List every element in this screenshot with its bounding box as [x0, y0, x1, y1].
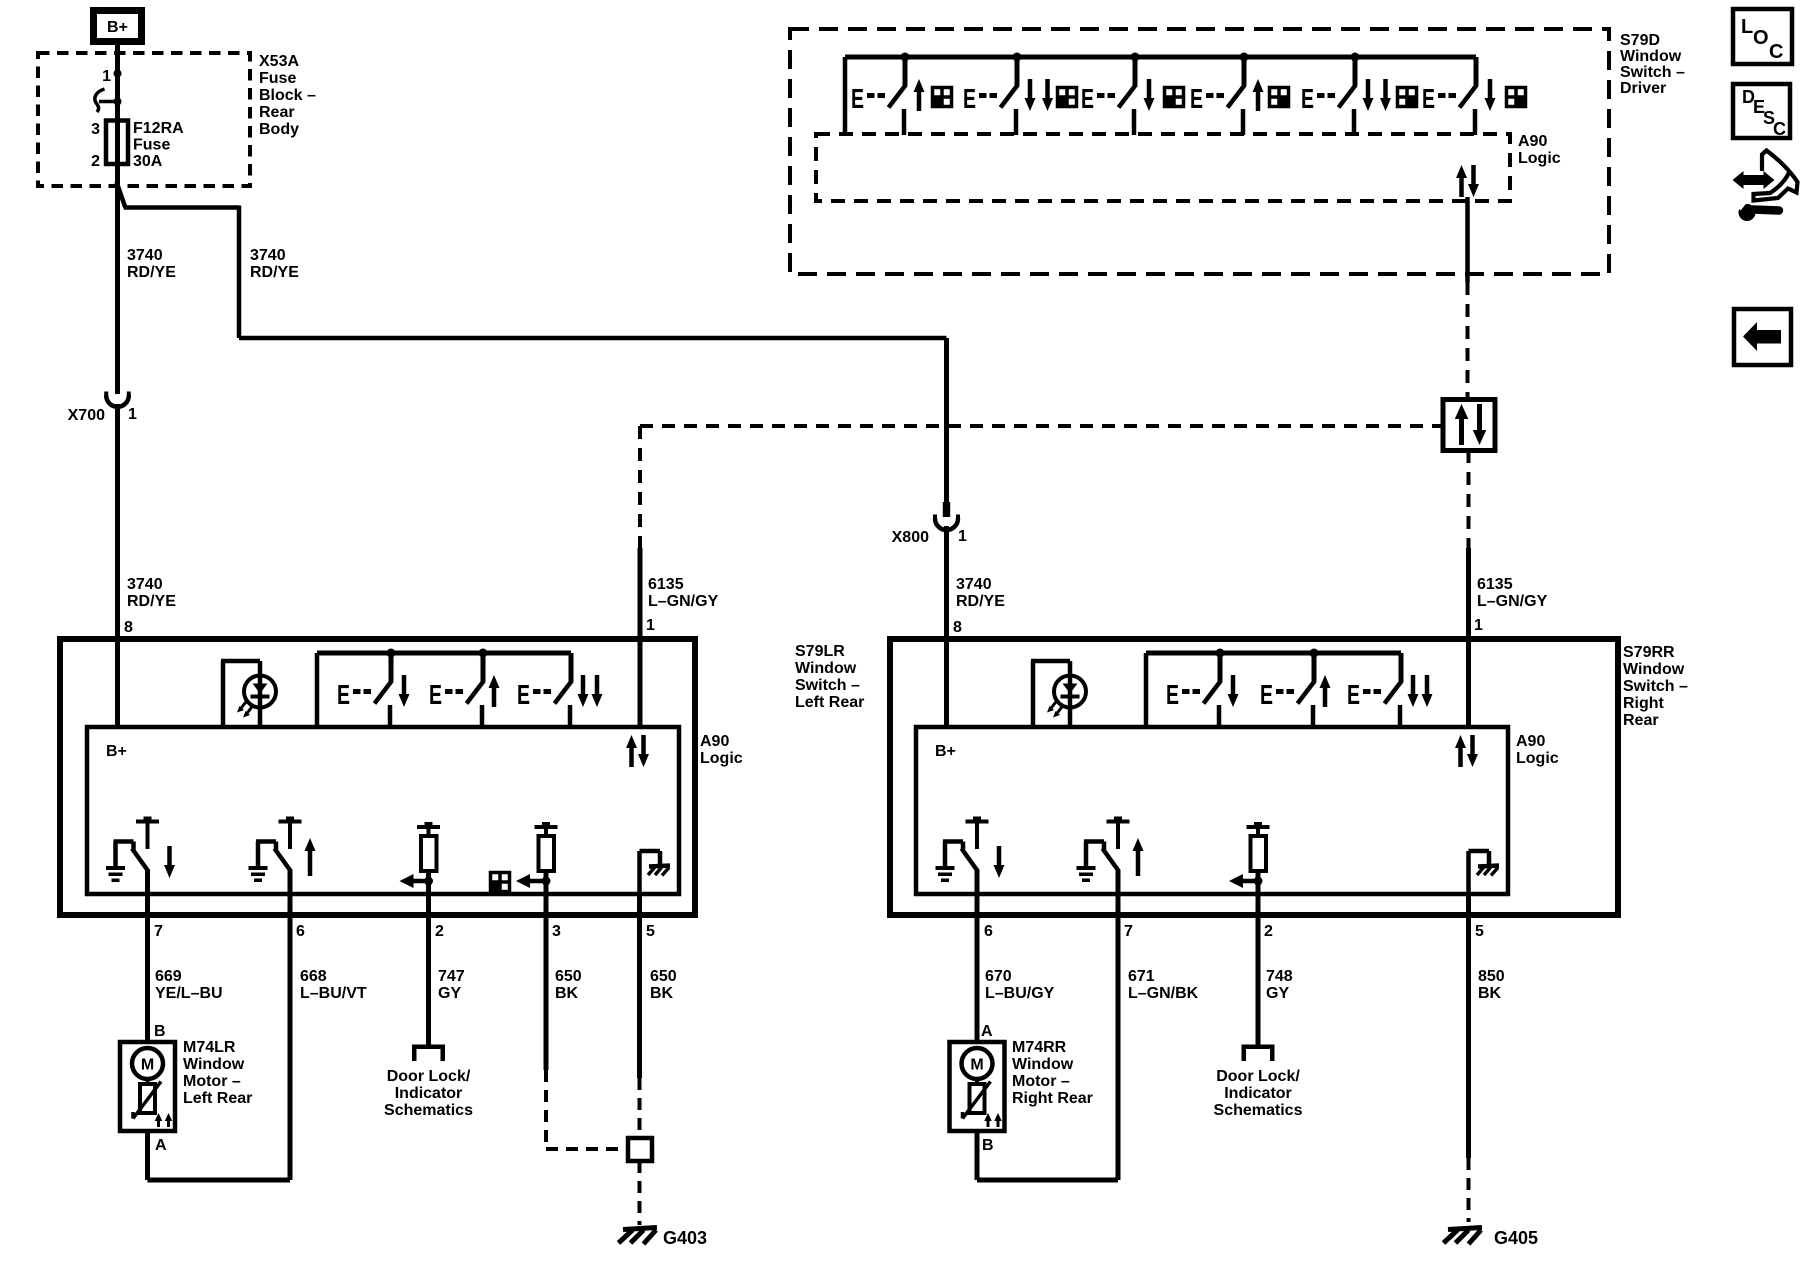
S79RR resistor output (pin 2)	[1229, 822, 1270, 896]
svg-text:670: 670	[985, 968, 1012, 985]
S79LR resistor output (pin 2)	[400, 822, 441, 896]
wire label 650 BK (pin 5)	[650, 968, 677, 1002]
S79RR switch 2 (E-switch)	[1260, 649, 1331, 728]
svg-text:Driver: Driver	[1620, 80, 1666, 97]
svg-text:747: 747	[438, 968, 465, 985]
svg-text:L–BU/GY: L–BU/GY	[985, 985, 1055, 1002]
S79LR switch bus	[317, 653, 571, 727]
svg-text:3740: 3740	[250, 247, 286, 264]
connector up-down box	[1443, 400, 1495, 451]
S79RR label	[1623, 644, 1688, 729]
svg-text:X700: X700	[68, 407, 105, 424]
svg-text:M: M	[970, 1057, 983, 1074]
svg-text:2: 2	[91, 153, 100, 170]
svg-text:BK: BK	[650, 985, 674, 1002]
fuse block label X53A	[259, 53, 316, 138]
svg-text:E: E	[1190, 83, 1203, 114]
S79LR switch 2 (E-switch)	[429, 649, 500, 728]
svg-text:YE/L–BU: YE/L–BU	[155, 985, 223, 1002]
S79RR up-switch to ground (pin 7)	[1077, 817, 1144, 897]
svg-text:748: 748	[1266, 968, 1293, 985]
fuse F12RA 30A	[91, 120, 184, 170]
svg-text:E: E	[1260, 679, 1273, 710]
driver bus wire	[845, 57, 1476, 135]
wire main horizontal to X800	[239, 336, 947, 341]
svg-text:Rear: Rear	[1623, 712, 1659, 729]
wire pin 3 solid	[544, 871, 549, 1070]
svg-text:E: E	[1081, 83, 1094, 114]
svg-text:Fuse: Fuse	[259, 70, 296, 87]
M74RR label	[1012, 1039, 1093, 1107]
wire dashed driver to connector	[1466, 282, 1470, 399]
S79RR internal chassis ground (pin 5)	[1469, 851, 1500, 896]
wire dashed crossover left down	[638, 426, 642, 548]
window icon 5	[1397, 87, 1417, 107]
svg-text:GY: GY	[1266, 985, 1289, 1002]
svg-text:3740: 3740	[956, 576, 992, 593]
svg-text:671: 671	[1128, 968, 1155, 985]
ground G403	[619, 1228, 708, 1249]
svg-text:L: L	[1741, 16, 1753, 38]
svg-text:3: 3	[552, 923, 561, 940]
svg-text:Logic: Logic	[1518, 150, 1561, 167]
door lock text right	[1214, 1068, 1303, 1119]
driver A90 label	[1518, 133, 1561, 167]
svg-text:Indicator: Indicator	[395, 1085, 463, 1102]
wire pin 2 to door lock schematic	[426, 871, 431, 1047]
wire label 747 GY	[438, 968, 465, 1002]
svg-text:BK: BK	[555, 985, 579, 1002]
wire pin 5 right solid	[1466, 894, 1471, 1158]
svg-text:E: E	[337, 679, 350, 710]
window switch S79LR outer box	[60, 639, 695, 915]
svg-text:Right: Right	[1623, 695, 1665, 712]
svg-text:5: 5	[646, 923, 655, 940]
svg-text:3: 3	[91, 121, 100, 138]
svg-text:Window: Window	[1620, 48, 1682, 65]
svg-text:7: 7	[154, 923, 163, 940]
connector X800	[892, 502, 967, 546]
window icon 4	[1269, 87, 1289, 107]
wire dashed crossover horizontal	[640, 424, 1443, 428]
wire pin 5 dashed	[638, 1078, 642, 1138]
wire splice horizontal upper	[124, 205, 239, 210]
svg-text:O: O	[1753, 27, 1769, 49]
wire down to main horizontal	[237, 206, 242, 339]
door lock text left	[384, 1068, 473, 1119]
S79D label	[1620, 32, 1685, 97]
wire X800 to S79RR pin 8	[944, 526, 949, 727]
svg-text:Block –: Block –	[259, 87, 316, 104]
svg-text:668: 668	[300, 968, 327, 985]
svg-text:2: 2	[435, 923, 444, 940]
pin labels S79RR	[984, 923, 1484, 940]
window switch S79RR outer box	[890, 639, 1618, 915]
svg-text:S79LR: S79LR	[795, 643, 845, 660]
svg-text:G403: G403	[663, 1228, 707, 1248]
wire pin 6 to motor	[975, 871, 980, 1042]
wire pin 5 right dashed	[1467, 1158, 1471, 1222]
svg-text:Left Rear: Left Rear	[795, 694, 864, 711]
svg-text:30A: 30A	[133, 153, 163, 170]
driver switch 4 (E-switch)	[1190, 53, 1264, 136]
svg-text:E: E	[429, 679, 442, 710]
svg-text:S79RR: S79RR	[1623, 644, 1675, 661]
svg-text:B+: B+	[935, 743, 956, 760]
svg-text:A90: A90	[700, 733, 729, 750]
wire motor loop to pin 6	[148, 871, 291, 1180]
svg-text:Body: Body	[259, 121, 299, 138]
S79LR up-switch to ground (pin 6)	[249, 817, 316, 897]
svg-text:E: E	[963, 83, 976, 114]
wire B+ down to X700	[115, 44, 120, 394]
S79LR A90 up-down arrows	[626, 735, 649, 767]
svg-text:Schematics: Schematics	[384, 1102, 473, 1119]
svg-text:Logic: Logic	[1516, 750, 1559, 767]
S79RR A90 label	[1516, 733, 1559, 767]
svg-text:650: 650	[650, 968, 677, 985]
driver switch 1 (E-switch)	[851, 53, 925, 136]
wire label 669 YE/L-BU	[155, 968, 223, 1002]
svg-text:L–BU/VT: L–BU/VT	[300, 985, 367, 1002]
wire label 3740 RD/YE at pin 8	[127, 576, 176, 610]
svg-text:GY: GY	[438, 985, 461, 1002]
driver A90 up-down arrows	[1456, 165, 1479, 197]
S79LR A90 label	[700, 733, 743, 767]
svg-text:A: A	[981, 1023, 993, 1040]
svg-text:C: C	[1773, 119, 1786, 139]
svg-text:M74RR: M74RR	[1012, 1039, 1067, 1056]
window icon 2	[1057, 87, 1077, 107]
door lock bracket left	[412, 1045, 445, 1050]
wire dashed connector down	[1467, 450, 1471, 548]
svg-text:669: 669	[155, 968, 182, 985]
svg-text:Window: Window	[1623, 661, 1685, 678]
driver switch 5 (E-switch)	[1301, 53, 1391, 136]
wire label 670 L-BU/GY	[985, 968, 1055, 1002]
S79LR switch 1 (E-switch)	[337, 649, 410, 728]
svg-text:Fuse: Fuse	[133, 137, 170, 154]
wire label 668 L-BU/VT	[300, 968, 367, 1002]
svg-text:Window: Window	[795, 660, 857, 677]
svg-text:E: E	[851, 83, 864, 114]
svg-text:Switch –: Switch –	[1620, 64, 1685, 81]
power symbol B+	[94, 11, 142, 42]
svg-text:E: E	[1301, 83, 1314, 114]
S79LR label	[795, 643, 864, 711]
svg-text:5: 5	[1475, 923, 1484, 940]
svg-text:1: 1	[646, 617, 655, 634]
svg-text:E: E	[1347, 679, 1360, 710]
svg-text:6: 6	[984, 923, 993, 940]
wire label 748 GY	[1266, 968, 1293, 1002]
svg-text:X53A: X53A	[259, 53, 299, 70]
fuse block X53A dashed box	[38, 53, 250, 186]
wire to S79LR pin 1	[638, 548, 643, 727]
svg-text:B+: B+	[107, 19, 128, 36]
S79LR internal chassis ground (pin 5)	[640, 851, 671, 896]
wire label 3740 RD/YE right	[250, 247, 299, 281]
icon LOC box	[1733, 9, 1792, 64]
svg-text:C: C	[1769, 41, 1783, 63]
window icon 1	[932, 87, 952, 107]
svg-text:M: M	[141, 1057, 154, 1074]
wire label 3740 RD/YE at X800	[956, 576, 1005, 610]
wire dashed splice to ground	[638, 1161, 642, 1225]
window icon 6	[1506, 87, 1526, 107]
svg-text:B: B	[154, 1023, 166, 1040]
window icon at S79LR pin 3	[490, 872, 510, 892]
wire label 850 BK	[1478, 968, 1505, 1002]
S79RR switch 1 (E-switch)	[1166, 649, 1239, 728]
svg-text:E: E	[517, 679, 530, 710]
wire dashed to splice box	[546, 1147, 628, 1151]
svg-text:2: 2	[1264, 923, 1273, 940]
svg-text:6: 6	[296, 923, 305, 940]
svg-text:1: 1	[128, 406, 137, 423]
svg-text:B+: B+	[106, 743, 127, 760]
connector X700	[68, 392, 137, 425]
svg-text:F12RA: F12RA	[133, 120, 184, 137]
window motor M74LR	[120, 1042, 175, 1131]
svg-text:RD/YE: RD/YE	[127, 593, 176, 610]
wire pin 7 to motor	[145, 871, 150, 1042]
svg-text:3740: 3740	[127, 247, 163, 264]
wire driver A90 output	[1465, 197, 1470, 282]
icon DESC box	[1733, 84, 1790, 139]
wire pin 3 dashed down	[544, 1070, 548, 1149]
wire label 650 BK (pin 3)	[555, 968, 582, 1002]
svg-text:6135: 6135	[1477, 576, 1513, 593]
svg-text:8: 8	[953, 619, 962, 636]
S79RR down-switch to ground (pin 6)	[936, 817, 1005, 897]
svg-text:6135: 6135	[648, 576, 684, 593]
svg-text:3740: 3740	[127, 576, 163, 593]
svg-text:Window: Window	[183, 1056, 245, 1073]
svg-text:Door Lock/: Door Lock/	[1216, 1068, 1300, 1085]
svg-text:Schematics: Schematics	[1214, 1102, 1303, 1119]
node pin 1 of fuse block	[102, 68, 121, 85]
svg-text:B: B	[982, 1137, 994, 1154]
svg-text:X800: X800	[892, 529, 929, 546]
svg-text:Window: Window	[1012, 1056, 1074, 1073]
S79RR switch 3 (E-switch)	[1347, 653, 1433, 727]
svg-text:A: A	[155, 1137, 167, 1154]
svg-text:E: E	[1422, 83, 1435, 114]
driver A90 Logic dashed box	[816, 134, 1510, 201]
svg-text:1: 1	[958, 528, 967, 545]
window switch driver S79D dashed box	[790, 29, 1609, 274]
svg-text:Right Rear: Right Rear	[1012, 1090, 1093, 1107]
ground G405	[1444, 1228, 1539, 1249]
wire pin 2 right to door lock	[1256, 871, 1261, 1047]
svg-text:RD/YE: RD/YE	[250, 264, 299, 281]
wire label 6135 L-GN/GY right	[1477, 576, 1548, 610]
window icon 3	[1164, 87, 1184, 107]
svg-text:Left Rear: Left Rear	[183, 1090, 252, 1107]
driver switch 6 (E-switch)	[1422, 57, 1496, 135]
S79LR A90 logic inner box	[87, 727, 679, 894]
wire to S79RR pin 1	[1466, 548, 1471, 727]
svg-text:Indicator: Indicator	[1224, 1085, 1292, 1102]
S79LR resistor output with window icon (pin 3)	[516, 822, 558, 896]
S79LR switch 3 (E-switch)	[517, 653, 603, 727]
svg-text:7: 7	[1124, 923, 1133, 940]
svg-text:650: 650	[555, 968, 582, 985]
svg-text:Door Lock/: Door Lock/	[387, 1068, 471, 1085]
svg-text:850: 850	[1478, 968, 1505, 985]
S79LR down-switch to ground (pin 7)	[106, 817, 175, 897]
svg-text:L–GN/BK: L–GN/BK	[1128, 985, 1199, 1002]
wire label 6135 L-GN/GY left	[648, 576, 719, 610]
svg-text:Logic: Logic	[700, 750, 743, 767]
window motor M74RR	[950, 1042, 1005, 1131]
svg-text:Motor –: Motor –	[183, 1073, 241, 1090]
door lock bracket right	[1242, 1045, 1275, 1050]
S79RR A90 up-down arrows	[1455, 735, 1478, 767]
pin labels S79LR	[154, 923, 655, 940]
svg-text:1: 1	[1474, 617, 1483, 634]
svg-text:A90: A90	[1516, 733, 1545, 750]
S79LR indicator LED	[221, 661, 276, 727]
wire fuse to splice - diagonal	[117, 182, 126, 208]
driver switch 2 (E-switch)	[963, 53, 1053, 136]
wire down to X800	[944, 338, 949, 502]
wire motor loop to pin 7	[977, 871, 1118, 1180]
wire label 671 L-GN/BK	[1128, 968, 1199, 1002]
svg-text:RD/YE: RD/YE	[956, 593, 1005, 610]
icon schematic-reference with wrench	[1732, 151, 1797, 222]
svg-text:S79D: S79D	[1620, 32, 1660, 49]
M74LR label	[183, 1039, 252, 1107]
svg-text:BK: BK	[1478, 985, 1502, 1002]
wire label 3740 RD/YE left	[127, 247, 176, 281]
S79RR switch bus	[1146, 653, 1401, 727]
svg-text:L–GN/GY: L–GN/GY	[1477, 593, 1548, 610]
svg-text:G405: G405	[1494, 1228, 1538, 1248]
svg-text:L–GN/GY: L–GN/GY	[648, 593, 719, 610]
wire pin 5 solid	[637, 894, 642, 1078]
fuse block terminal curl	[95, 89, 122, 112]
svg-text:Switch –: Switch –	[795, 677, 860, 694]
svg-text:RD/YE: RD/YE	[127, 264, 176, 281]
wire X700 to S79LR pin 8	[115, 404, 120, 727]
svg-text:1: 1	[102, 68, 111, 85]
splice box	[628, 1138, 652, 1161]
driver switch 3 (E-switch)	[1081, 53, 1155, 136]
svg-text:8: 8	[124, 619, 133, 636]
S79RR A90 logic inner box	[916, 727, 1508, 894]
svg-text:Rear: Rear	[259, 104, 295, 121]
S79RR indicator LED	[1031, 661, 1086, 727]
icon back-arrow box	[1734, 309, 1791, 365]
svg-text:M74LR: M74LR	[183, 1039, 236, 1056]
svg-text:E: E	[1166, 679, 1179, 710]
svg-text:Switch –: Switch –	[1623, 678, 1688, 695]
svg-text:A90: A90	[1518, 133, 1547, 150]
svg-text:Motor –: Motor –	[1012, 1073, 1070, 1090]
